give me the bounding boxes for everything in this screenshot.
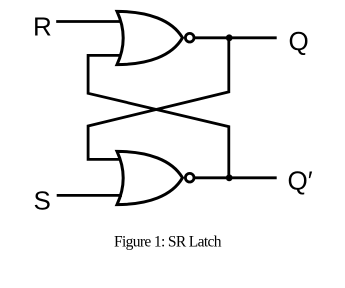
wire R input: [56, 20, 122, 23]
svg-text:Q: Q: [289, 26, 309, 56]
node Q junction dot: [226, 34, 233, 41]
svg-text:S: S: [34, 186, 51, 216]
wire U1 output to Q: [195, 36, 277, 39]
node Q' junction dot: [226, 174, 233, 181]
svg-text:R: R: [33, 12, 52, 42]
svg-text:Q′: Q′: [288, 165, 313, 195]
U1 inversion bubble: [185, 33, 194, 42]
wire Q'-feedback to U1 lower input: [88, 55, 229, 177]
wire S input: [57, 194, 122, 197]
svg-text:Figure 1: SR Latch: Figure 1: SR Latch: [114, 234, 222, 251]
wire Q-feedback to U2 upper input: [88, 38, 229, 160]
NOR gate U1 (top) body: [117, 11, 183, 64]
wire U2 output to Q': [195, 176, 277, 179]
U2 inversion bubble: [185, 173, 194, 182]
NOR gate U2 (bottom) body: [117, 151, 183, 204]
